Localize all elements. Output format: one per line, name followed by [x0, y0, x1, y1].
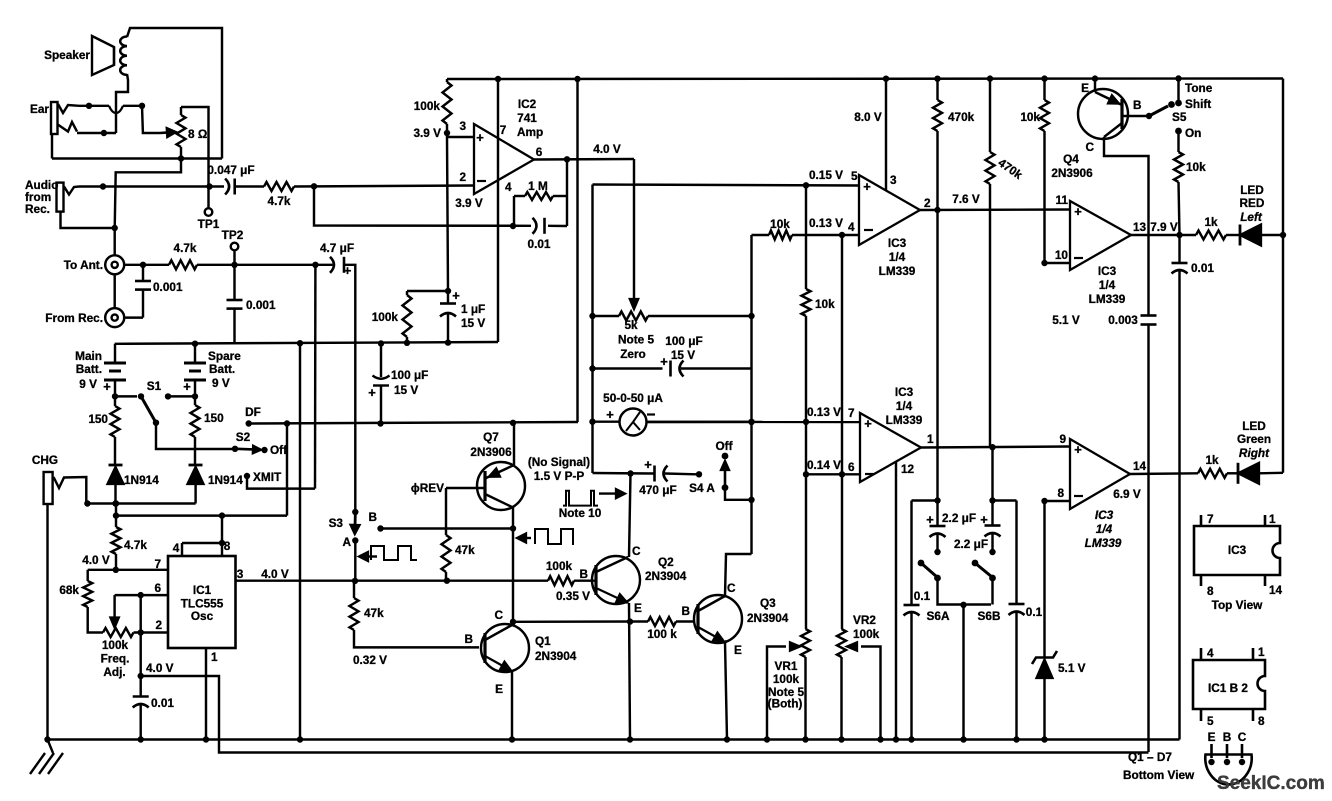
- wire 1M left leg: [513, 196, 515, 226]
- svg-text:3.9 V: 3.9 V: [455, 196, 483, 210]
- svg-text:8 Ω: 8 Ω: [188, 127, 207, 141]
- svg-text:0.32 V: 0.32 V: [353, 653, 387, 667]
- svg-text:1.5 V P-P: 1.5 V P-P: [534, 469, 585, 483]
- svg-text:+: +: [183, 379, 191, 394]
- capacitor 0.003: [1141, 314, 1157, 317]
- resistor 100k IC2: [443, 82, 452, 124]
- wire 515 up to DF: [286, 424, 288, 516]
- wire 0.13V line: [752, 234, 770, 236]
- wire 100k to Q2 base: [574, 579, 596, 581]
- svg-text:Tone: Tone: [1185, 81, 1213, 95]
- svg-text:Off: Off: [270, 443, 287, 457]
- svg-text:C: C: [727, 581, 736, 595]
- resistor 1k green: [1198, 469, 1227, 478]
- svg-text:E: E: [495, 682, 503, 696]
- Q3 collector: [698, 596, 725, 611]
- svg-text:47k: 47k: [364, 606, 384, 620]
- ground symbol: [48, 740, 54, 754]
- wire right rail 752: [750, 235, 752, 554]
- wire IC3d out: [1130, 472, 1198, 475]
- svg-text:S6B: S6B: [978, 609, 1001, 623]
- svg-text:+: +: [864, 416, 872, 431]
- svg-text:150: 150: [88, 412, 108, 426]
- svg-text:Note 5: Note 5: [618, 333, 654, 347]
- LED red: [1239, 225, 1242, 246]
- squarewave at Q7: [526, 537, 531, 539]
- wire 4.7k to TP2 node: [197, 264, 333, 266]
- svg-text:2.2 μF: 2.2 μF: [942, 511, 976, 525]
- svg-text:2: 2: [924, 196, 931, 210]
- potentiometer 5k: [619, 312, 648, 321]
- wire IC3a pin3 V+: [885, 79, 887, 192]
- svg-text:7: 7: [500, 123, 507, 137]
- svg-text:B: B: [368, 510, 377, 524]
- svg-text:RED: RED: [1240, 196, 1265, 210]
- wire feedback line: [314, 186, 531, 226]
- svg-text:10k: 10k: [1020, 110, 1040, 124]
- svg-text:S4 A: S4 A: [689, 481, 715, 495]
- switch S2 arm: [232, 446, 238, 452]
- wire pin7 line: [88, 569, 168, 571]
- svg-text:0.1: 0.1: [914, 589, 931, 603]
- node main batt +: [112, 393, 118, 399]
- battery Spare 9V: [194, 344, 196, 363]
- wire S6A drop: [938, 578, 992, 605]
- wiper VR1: [767, 647, 786, 740]
- wire audio node down: [113, 228, 115, 255]
- wire tip to 8ohm wiper: [142, 106, 160, 133]
- svg-text:+: +: [863, 179, 871, 194]
- svg-text:0.1: 0.1: [1026, 605, 1043, 619]
- pulse Note 10: [563, 491, 598, 506]
- svg-text:4: 4: [173, 541, 180, 555]
- svg-text:+: +: [476, 130, 484, 145]
- wire 343 corner up: [497, 341, 499, 343]
- wire 1k to LED red: [1226, 234, 1240, 236]
- wire B drop from DF: [379, 422, 381, 425]
- svg-text:B: B: [579, 567, 588, 581]
- zener 5.1V: [1043, 501, 1045, 658]
- svg-text:3: 3: [459, 119, 466, 133]
- comparator IC3c: [1070, 201, 1131, 270]
- svg-text:Right: Right: [1239, 446, 1270, 460]
- svg-text:E: E: [1208, 730, 1216, 744]
- svg-text:LM339: LM339: [1089, 292, 1126, 306]
- svg-text:2N3906: 2N3906: [1051, 166, 1093, 180]
- svg-text:2N3904: 2N3904: [535, 649, 577, 663]
- wire pin6 line: [115, 594, 168, 596]
- svg-text:IC3: IC3: [1228, 543, 1247, 557]
- svg-text:Left: Left: [1240, 210, 1263, 224]
- svg-text:IC3: IC3: [1098, 264, 1117, 278]
- svg-text:Note 10: Note 10: [559, 506, 602, 520]
- svg-text:3.9 V: 3.9 V: [413, 126, 441, 140]
- wire coil bottom to ear ring: [116, 74, 128, 133]
- wire audio tap down: [314, 265, 317, 489]
- resistor 100k Q2: [548, 576, 574, 585]
- svg-text:Q2: Q2: [658, 555, 674, 569]
- svg-text:741: 741: [517, 111, 537, 125]
- resistor 68k: [86, 570, 88, 581]
- wire 1M right leg: [566, 159, 568, 196]
- svg-text:IC2: IC2: [518, 97, 537, 111]
- transistor Q1 2N3904: [481, 624, 529, 672]
- svg-text:9 V: 9 V: [212, 376, 230, 390]
- op-amp IC2: [474, 124, 534, 194]
- wire cap to 4.7k: [235, 185, 264, 187]
- capacitor 0.01 feedback: [533, 218, 537, 234]
- svg-text:100k: 100k: [102, 638, 129, 652]
- svg-text:Rec.: Rec.: [25, 202, 50, 216]
- wire 4.7k to IC2 pin2: [294, 186, 474, 187]
- wire ear ring spring: [57, 122, 77, 132]
- svg-text:4.7k: 4.7k: [268, 194, 291, 208]
- wire 8ohm top to audio node: [181, 107, 209, 187]
- wire To Ant line: [124, 264, 169, 266]
- wire VR1 feed: [805, 422, 807, 474]
- svg-text:LM339: LM339: [1085, 536, 1122, 550]
- resistor 470k 1: [936, 79, 938, 101]
- Q2 collector: [596, 557, 628, 572]
- svg-text:0.14 V: 0.14 V: [807, 458, 841, 472]
- ear jack J1: [51, 102, 58, 134]
- node meter minus junctions: [748, 419, 754, 425]
- svg-text:14: 14: [1269, 583, 1283, 597]
- capacitor 1uF: [447, 291, 449, 304]
- capacitor 100uF left: [380, 344, 382, 378]
- wire ground bus A: [48, 738, 1180, 740]
- wire common 343 line: [115, 342, 498, 344]
- wire ear tip line: [79, 105, 109, 107]
- audio jack J2: [57, 183, 64, 212]
- svg-text:XMIT: XMIT: [253, 470, 282, 484]
- resistor 8ohm: [177, 115, 186, 147]
- svg-text:6: 6: [536, 145, 543, 159]
- svg-text:TP1: TP1: [198, 217, 220, 231]
- wire 2.2uF bracket right: [993, 499, 1017, 501]
- switch S1: [115, 395, 137, 397]
- svg-text:Adj.: Adj.: [103, 665, 125, 679]
- wire S6B drop: [991, 578, 993, 605]
- svg-text:1k: 1k: [1205, 453, 1219, 467]
- capacitor 0.01 IC1: [139, 676, 141, 697]
- svg-text:B: B: [1133, 98, 1142, 112]
- svg-text:4.0 V: 4.0 V: [82, 553, 110, 567]
- svg-text:1N914: 1N914: [208, 473, 243, 487]
- svg-text:6: 6: [154, 581, 161, 595]
- svg-text:1: 1: [1269, 512, 1276, 526]
- svg-text:B: B: [1223, 730, 1232, 744]
- Q7 emitter: [513, 423, 515, 465]
- svg-text:100k: 100k: [546, 559, 573, 573]
- potentiometer 100k freq: [103, 628, 134, 637]
- svg-text:Q1: Q1: [535, 634, 551, 648]
- squarewave at S3: [368, 555, 377, 557]
- svg-text:68k: 68k: [59, 583, 79, 597]
- svg-text:2N3904: 2N3904: [747, 611, 789, 625]
- capacitor 470uF: [653, 466, 656, 482]
- svg-text:Spare: Spare: [208, 349, 241, 363]
- Q7 collector: [485, 494, 513, 508]
- svg-text:Zero: Zero: [620, 347, 646, 361]
- wire phiREV to base: [446, 487, 485, 489]
- LED green: [1237, 463, 1240, 484]
- svg-text:10k: 10k: [770, 217, 790, 231]
- wire IC2 output: [534, 158, 634, 161]
- svg-text:5.1 V: 5.1 V: [1058, 661, 1086, 675]
- svg-text:Osc: Osc: [191, 609, 214, 623]
- resistor 4.7k ant: [169, 260, 197, 269]
- capacitor 4.7uF: [330, 257, 334, 273]
- contact On S5: [1175, 128, 1182, 135]
- svg-text:100 μF: 100 μF: [665, 334, 702, 348]
- svg-text:Q1 – D7: Q1 – D7: [1128, 750, 1172, 764]
- svg-text:LM339: LM339: [879, 264, 916, 278]
- Q4 collector: [1104, 123, 1122, 137]
- svg-text:10k: 10k: [1186, 160, 1206, 174]
- svg-text:LED: LED: [1242, 419, 1266, 433]
- svg-text:4: 4: [1207, 646, 1214, 660]
- svg-text:Bottom View: Bottom View: [1123, 768, 1195, 782]
- diode D2 1N914: [189, 464, 203, 467]
- svg-text:7: 7: [1207, 512, 1214, 526]
- svg-text:C: C: [632, 544, 641, 558]
- test point TP1: [207, 187, 209, 209]
- wire IC3c out: [1131, 234, 1196, 236]
- svg-text:0.003: 0.003: [1108, 313, 1138, 327]
- svg-text:+: +: [926, 512, 934, 527]
- wire speaker box bottom: [52, 157, 222, 159]
- svg-text:470 μF: 470 μF: [639, 483, 676, 497]
- potentiometer VR1: [801, 629, 810, 657]
- capacitor 0.047uF: [225, 179, 229, 195]
- svg-text:7: 7: [154, 557, 161, 571]
- svg-text:1: 1: [1258, 645, 1265, 659]
- svg-text:100 μF: 100 μF: [391, 368, 428, 382]
- svg-text:VR2: VR2: [853, 613, 876, 627]
- capacitor 100uF meter: [593, 367, 663, 369]
- svg-text:LED: LED: [1240, 183, 1264, 197]
- resistor 100k Q3: [648, 617, 676, 626]
- comparator IC3d: [1070, 439, 1130, 509]
- wire Q1C to 100k: [513, 620, 648, 623]
- svg-text:0.047 μF: 0.047 μF: [207, 163, 254, 177]
- wire S3A to pin3 line: [354, 541, 356, 581]
- svg-text:50-0-50 μA: 50-0-50 μA: [603, 391, 663, 405]
- potentiometer VR2: [837, 629, 846, 657]
- svg-text:Q7: Q7: [483, 430, 499, 444]
- svg-text:1: 1: [927, 432, 934, 446]
- svg-text:Q3: Q3: [760, 596, 776, 610]
- svg-text:2: 2: [459, 170, 466, 184]
- wire 4.0V to 5k wiper: [633, 159, 635, 298]
- Q1 collector: [485, 625, 512, 640]
- svg-text:ϕREV: ϕREV: [411, 481, 444, 495]
- wire ear ring line: [77, 132, 116, 134]
- resistor 47k Q7: [442, 535, 451, 572]
- svg-text:C: C: [1238, 730, 1247, 744]
- svg-text:1/4: 1/4: [1096, 522, 1113, 536]
- svg-text:2N3904: 2N3904: [645, 569, 687, 583]
- svg-text:From Rec.: From Rec.: [45, 311, 103, 325]
- wire 470k1 low: [936, 210, 938, 501]
- svg-text:8: 8: [1207, 584, 1214, 598]
- svg-text:1/4: 1/4: [889, 250, 906, 264]
- resistor 150 main: [114, 396, 116, 406]
- svg-text:13: 13: [1133, 220, 1147, 234]
- resistor 47k Q1: [353, 581, 355, 598]
- svg-text:IC1: IC1: [193, 583, 212, 597]
- svg-text:C: C: [1085, 140, 1094, 154]
- svg-text:+: +: [660, 354, 668, 369]
- svg-text:B: B: [464, 632, 473, 646]
- svg-text:Ear: Ear: [30, 102, 49, 116]
- wire Q7 collector to Q1: [512, 529, 514, 622]
- svg-text:S1: S1: [147, 379, 162, 393]
- diode D1 1N914: [109, 464, 123, 467]
- svg-text:6: 6: [848, 460, 855, 474]
- svg-text:1/4: 1/4: [1099, 278, 1116, 292]
- svg-text:+: +: [606, 407, 614, 422]
- svg-text:8.0 V: 8.0 V: [854, 110, 882, 124]
- connector To Ant: [105, 255, 124, 274]
- svg-text:470k: 470k: [948, 110, 975, 124]
- resistor 4.7k IC1: [115, 504, 117, 528]
- svg-text:IC3: IC3: [888, 236, 907, 250]
- svg-text:4.0 V: 4.0 V: [593, 142, 621, 156]
- svg-text:2.2 μF: 2.2 μF: [954, 537, 988, 551]
- svg-text:8: 8: [1057, 486, 1064, 500]
- Q3 emitter: [698, 627, 715, 637]
- svg-text:Batt.: Batt.: [209, 362, 235, 376]
- capacitor 2.2uF B: [991, 501, 993, 526]
- test point TP2: [231, 243, 239, 251]
- svg-text:DF: DF: [245, 405, 261, 419]
- resistor 150 spare: [194, 396, 196, 405]
- resistor 1M: [525, 192, 553, 200]
- svg-text:0.35 V: 0.35 V: [556, 589, 590, 603]
- svg-text:IC3: IC3: [1095, 508, 1114, 522]
- svg-text:2: 2: [155, 618, 162, 632]
- svg-text:4: 4: [505, 180, 512, 194]
- meter M1: [593, 420, 620, 422]
- wire B line: [381, 527, 514, 529]
- switch S6B: [972, 560, 979, 567]
- svg-text:8: 8: [224, 539, 231, 553]
- svg-text:1 M: 1 M: [528, 179, 548, 193]
- svg-text:1 μF: 1 μF: [461, 302, 485, 316]
- wire S1 to S2 line: [156, 423, 232, 449]
- svg-text:5: 5: [851, 169, 858, 183]
- svg-text:4.7k: 4.7k: [174, 241, 197, 255]
- svg-text:S6A: S6A: [927, 609, 950, 623]
- svg-text:0.01: 0.01: [151, 696, 174, 710]
- node 3.9V: [444, 130, 450, 136]
- svg-text:S5: S5: [1172, 110, 1187, 124]
- svg-text:3: 3: [237, 567, 244, 581]
- svg-text:15 V: 15 V: [671, 348, 695, 362]
- transistor Q2 2N3904: [592, 556, 640, 604]
- capacitor 0.001 TP2: [233, 265, 235, 300]
- resistor 470k 2: [989, 79, 991, 153]
- wire zero to 470uF: [593, 472, 655, 475]
- capacitor 0.001 ant: [142, 265, 144, 281]
- svg-text:4.7 μF: 4.7 μF: [320, 241, 354, 255]
- svg-text:On: On: [1185, 126, 1201, 140]
- Q4 base wire: [1122, 115, 1146, 117]
- resistor 100k mid: [406, 291, 408, 295]
- wire IC3c minus: [1045, 262, 1071, 264]
- resistor 10k h: [769, 231, 792, 240]
- wire IC1 pin3 line: [236, 579, 549, 581]
- wire right edge rail: [1282, 79, 1284, 473]
- wire 470k2 low: [991, 447, 993, 500]
- node 4.0V bottom: [138, 673, 144, 679]
- svg-text:S2: S2: [236, 430, 251, 444]
- comparator IC3a: [859, 175, 920, 245]
- svg-text:0.001: 0.001: [246, 298, 276, 312]
- svg-text:+: +: [1074, 204, 1082, 219]
- svg-text:CHG: CHG: [32, 453, 58, 467]
- svg-text:1: 1: [211, 650, 218, 664]
- wire IC3b pin12 gnd: [895, 462, 897, 740]
- wire IC1 pins 4 8: [181, 543, 183, 556]
- wiper arrow 5k: [630, 299, 638, 309]
- capacitor 0.1 B: [1015, 501, 1017, 605]
- svg-text:2N3906: 2N3906: [470, 445, 512, 459]
- transistor Q3 2N3904: [694, 595, 742, 643]
- svg-text:E: E: [734, 643, 742, 657]
- svg-text:S3: S3: [329, 516, 344, 530]
- wire IC1 pin1: [205, 648, 207, 740]
- svg-text:3: 3: [890, 173, 897, 187]
- svg-text:5k: 5k: [624, 318, 638, 332]
- switch S6A: [918, 560, 925, 567]
- svg-text:+: +: [452, 288, 460, 303]
- resistor 10k S5: [1177, 131, 1179, 152]
- wiper arrow 8ohm: [160, 131, 167, 134]
- resistor 10k v: [805, 185, 807, 289]
- wire zero node vertical: [591, 185, 593, 474]
- svg-text:14: 14: [1133, 459, 1147, 473]
- capacitor 0.1 A: [910, 501, 912, 606]
- wire DF S2 XMIT feed 515: [116, 514, 287, 516]
- svg-text:100k: 100k: [372, 310, 399, 324]
- svg-text:100k: 100k: [414, 99, 441, 113]
- svg-text:LM339: LM339: [886, 413, 923, 427]
- wire IC3b out line: [921, 447, 1069, 448]
- wire top V+ bus: [447, 77, 1283, 80]
- svg-text:1k: 1k: [1204, 215, 1218, 229]
- capacitor 2.2uF A: [936, 501, 938, 527]
- wiper 100k freq: [113, 595, 115, 618]
- svg-text:15 V: 15 V: [394, 383, 418, 397]
- resistor 10k 1045: [1043, 79, 1045, 101]
- svg-text:9 V: 9 V: [79, 377, 97, 391]
- svg-text:IC3: IC3: [895, 385, 914, 399]
- wire IC3d minus: [1045, 500, 1071, 502]
- svg-text:4.0 V: 4.0 V: [146, 661, 174, 675]
- svg-text:4.7k: 4.7k: [124, 538, 147, 552]
- wire IC2 pin7 V+ drop: [497, 79, 499, 342]
- switch S4: [722, 453, 729, 460]
- svg-text:7.9 V: 7.9 V: [1150, 220, 1178, 234]
- svg-text:Speaker: Speaker: [44, 48, 90, 62]
- IC3 package top view: [1194, 526, 1280, 575]
- svg-text:TP2: TP2: [222, 228, 244, 242]
- wire speaker common to antenna node: [115, 159, 181, 229]
- svg-text:VR1: VR1: [775, 659, 798, 673]
